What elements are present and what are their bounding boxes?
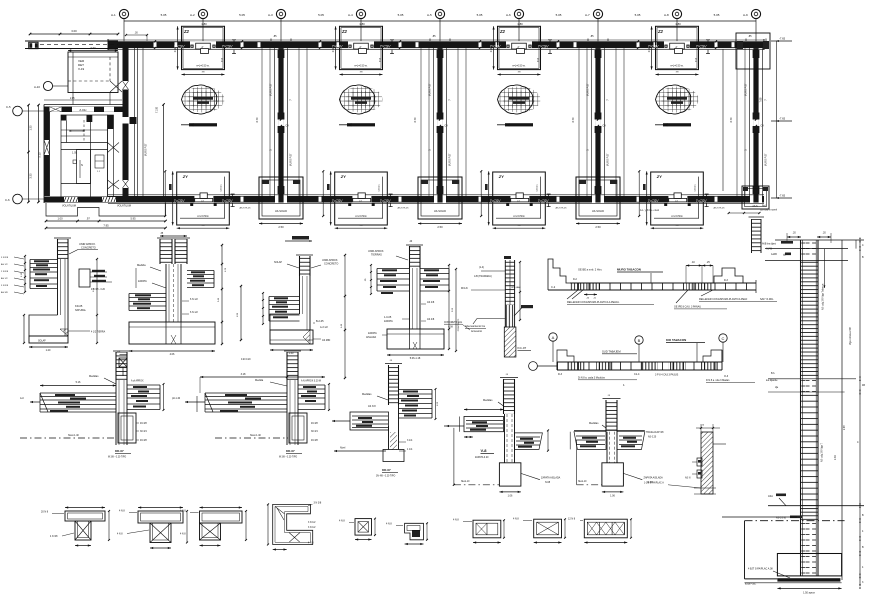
axis dimension texts [161,13,720,26]
svg-text:4 N 8: 4 N 8 [339,520,345,523]
wall section KE-07 [644,424,726,494]
upper room VER DET [68,46,118,93]
svg-text:s=L=0.50m: s=L=0.50m [355,216,367,218]
left plan bottom wall [44,197,166,208]
svg-text:49 3/8: 49 3/8 [140,422,147,425]
svg-text:4 N 8: 4 N 8 [119,510,125,513]
svg-text:7=CSV: 7=CSV [490,199,502,203]
svg-text:les dijande: les dijande [766,379,778,382]
beam elevation with axis circles A B C [529,333,755,387]
svg-text:Accesorio: Accesorio [471,330,483,333]
svg-text:ZAPATA AISLADA: ZAPATA AISLADA [644,477,664,480]
svg-text:1.20: 1.20 [46,349,51,352]
svg-text:CONCRETO: CONCRETO [324,263,338,266]
svg-text:7=CSV: 7=CSV [380,45,392,49]
svg-text:ZAPATA: ZAPATA [138,280,147,283]
svg-text:MURO P.07: MURO P.07 [765,153,768,166]
svg-text:AS-SOLID: AS-SOLID [592,209,604,213]
svg-text:Z-02v: Z-02v [79,108,87,112]
svg-text:Z2: Z2 [499,29,506,34]
svg-text:4 N 8: 4 N 8 [453,519,459,522]
svg-text:ZY: ZY [182,174,188,179]
svg-text:solterra: solterra [378,184,381,192]
svg-text:M=Lift: M=Lift [461,287,468,290]
svg-text:KD-07: KD-07 [286,449,295,453]
wall footing at axis x=281 [259,177,303,229]
bottom wall band [108,195,764,204]
section arrow mark at axis x=203 [181,123,217,126]
svg-text:MURO P.07: MURO P.07 [587,83,590,96]
svg-text:B.b.: B.b. [771,373,775,375]
svg-text:ASIA PLAC: ASIA PLAC [745,583,757,586]
svg-text:CONCRETO CAL: CONCRETO CAL [444,321,463,324]
svg-text:s=L=0.50m: s=L=0.50m [513,216,525,218]
svg-text:2.48: 2.48 [834,455,837,460]
svg-text:AVB les dijesi: AVB les dijesi [762,243,776,246]
svg-text:A-6: A-6 [506,13,511,17]
svg-text:3 N 3/8: 3 N 3/8 [1,257,9,259]
svg-text:ZAPATA: ZAPATA [384,320,393,323]
svg-text:Medida: Medida [137,263,146,267]
svg-text:Z2: Z2 [183,29,190,34]
elevation level mark symbol [117,351,127,376]
footing ZY at axis x=361 [322,170,392,229]
svg-text:AS-SOLID: AS-SOLID [434,209,446,213]
svg-text:3.00: 3.00 [71,29,77,33]
door swing X marks upper [110,81,122,92]
footing Z2 at axis x=361 [333,26,394,75]
footing Z2 at axis x=677 [649,26,710,75]
svg-text:7=CSV: 7=CSV [174,199,186,203]
svg-text:ASA: ASA [768,495,773,498]
svg-text:A-10: A-10 [34,85,40,89]
footing Z2 at axis x=519 [491,26,552,75]
vertical wall at axis x=440 [421,48,466,196]
svg-text:MURO P.07: MURO P.07 [449,153,452,166]
svg-text:s=L=0.50 m.: s=L=0.50 m. [196,64,210,67]
svg-text:1.50 aprox: 1.50 aprox [803,592,816,595]
room right edge line [156,103,165,201]
beam section S9 wide rectangle [568,518,632,544]
svg-text:solterra: solterra [220,184,223,192]
svg-text:A.L. y B.Oa + nivel: A.L. y B.Oa + nivel [640,209,660,212]
svg-text:5.06-1.18: 5.06-1.18 [410,357,421,360]
svg-text:AS-STK.05: AS-STK.05 [240,207,252,210]
svg-text:4 BJT S-PA/PLAC A.08: 4 BJT S-PA/PLAC A.08 [748,568,773,571]
svg-text:5.05: 5.05 [239,13,245,17]
svg-text:30 3/4: 30 3/4 [140,430,147,433]
vertical wall at axis x=598 [579,48,624,196]
svg-text:A-7: A-7 [585,13,590,17]
svg-text:B: B [638,338,641,343]
tall column footing [722,517,842,595]
svg-text:solterra: solterra [694,184,697,192]
svg-text:s=L=0.50 m.: s=L=0.50 m. [670,64,684,67]
svg-text:GE BE a mrb. 2 Him.: GE BE a mrb. 2 Him. [578,268,602,272]
svg-text:4 N 8: 4 N 8 [308,543,314,545]
svg-text:AS-SOLID: AS-SOLID [275,209,287,213]
svg-text:1.80: 1.80 [517,22,523,26]
beam section S7 rectangle [453,519,505,544]
svg-text:AS colg 3/8 Viga Tabacon: AS colg 3/8 Viga Tabacon [822,283,825,310]
leader texts below detail D4 right [444,321,470,330]
svg-text:Z2: Z2 [341,29,348,34]
svg-text:8.70: 8.70 [256,117,259,122]
svg-text:D-3: D-3 [558,373,563,376]
svg-text:MURO P.07: MURO P.07 [745,83,748,96]
svg-text:Medidas: Medidas [362,393,372,396]
svg-text:1.80: 1.80 [359,22,365,26]
beam section S5 square [339,518,376,541]
axis circle 3 [268,9,286,18]
svg-text:-7.65: -7.65 [779,194,786,198]
band joint labels [174,45,708,203]
svg-text:Medidas: Medidas [589,422,599,425]
svg-text:.85: .85 [273,35,277,38]
top band tick marks and small dims [125,32,766,50]
svg-text:5.95: 5.95 [130,217,136,221]
svg-text:D-2: D-2 [573,278,578,281]
svg-text:AISLADA: AISLADA [366,336,377,339]
svg-text:2 N 3/8: 2 N 3/8 [1,271,9,273]
svg-text:7.100: 7.100 [156,106,159,113]
svg-text:MURO P.07: MURO P.07 [145,143,148,156]
small ladder stub below plan right [728,212,764,253]
svg-text:1.06: 1.06 [508,495,513,498]
svg-text:KD-05: KD-05 [75,304,83,308]
svg-text:TRASLACAP 3/8: TRASLACAP 3/8 [646,431,664,434]
svg-text:1.00: 1.00 [57,217,63,221]
beam section S2 T-shape [117,506,188,549]
svg-text:4 N 8: 4 N 8 [117,534,123,536]
svg-text:MURO P.07: MURO P.07 [429,83,432,96]
axis circle 8 [664,9,682,18]
svg-text:RELLENAR CON ESPUMA PLASTICA P: RELLENAR CON ESPUMA PLASTICA PELD [699,298,747,301]
svg-text:AS N 8: AS N 8 [368,405,376,408]
svg-text:1.05: 1.05 [72,152,77,155]
left plan wall face lines right [135,48,148,196]
hatched oval opening at axis x=519 [498,85,541,114]
svg-text:VOLATILUM: VOLATILUM [62,205,76,208]
hatched oval opening at axis x=203 [182,85,225,114]
svg-text:3.35: 3.35 [29,173,33,179]
axis circle 7 [585,9,603,18]
svg-text:7=CSV: 7=CSV [538,45,550,49]
svg-text:ZY: ZY [656,174,662,179]
svg-text:ZAPATA: ZAPATA [368,332,377,335]
svg-text:N: N [81,163,83,167]
svg-text:solterra: solterra [536,184,539,192]
svg-text:5.05: 5.05 [714,13,720,17]
svg-text:D N 8 a. nda 3 Madan: D N 8 a. nda 3 Madan [706,379,730,382]
svg-text:KD-07: KD-07 [115,449,124,453]
svg-text:49 3/8: 49 3/8 [140,439,147,442]
svg-text:4 N 3/8: 4 N 3/8 [50,536,58,538]
svg-text:SOLAP: SOLAP [38,340,46,343]
svg-text:Viga colmna 2.48: Viga colmna 2.48 [850,327,852,345]
hatched oval opening at axis x=677 [656,85,699,114]
svg-text:MURO P.07: MURO P.07 [270,83,273,96]
svg-text:8.70: 8.70 [730,117,733,122]
svg-text:AS 4/8: AS 4/8 [427,318,435,321]
svg-text:1.06: 1.06 [610,495,615,498]
svg-text:GE IPE 8 CAU. 3 PANAU: GE IPE 8 CAU. 3 PANAU [674,306,701,309]
beam section S6 stepped square [386,522,428,545]
beam section S3 L-shape [180,506,247,546]
svg-text:3N 4/8 - 0.20 TIPO: 3N 4/8 - 0.20 TIPO [376,476,395,478]
svg-text:7=CSV: 7=CSV [696,45,708,49]
axis circle 2 [190,9,208,18]
svg-text:3 N 1/2: 3 N 1/2 [308,522,316,524]
svg-text:7=CSV: 7=CSV [490,45,502,49]
svg-text:C-6: C-6 [5,198,10,202]
svg-text:Nivel-10: Nivel-10 [461,481,470,483]
axis circle left mid [34,81,68,90]
svg-text:.20: .20 [792,232,796,235]
section arrow mark at axis x=677 [655,123,691,126]
svg-text:3.60: 3.60 [90,46,96,50]
svg-text:AS-STK.05: AS-STK.05 [714,207,726,210]
room interior partitions [61,115,108,197]
svg-text:MURO TABACON: MURO TABACON [617,268,641,272]
svg-text:V-19: V-19 [78,67,85,71]
beam section S8 rectangle [513,518,566,544]
svg-text:AS 1/2: AS 1/2 [1,277,8,280]
svg-text:AS-STK.05: AS-STK.05 [398,207,410,210]
right elevation flags [640,37,792,213]
svg-text:49 3/8: 49 3/8 [311,439,318,442]
svg-text:6 N 1/2: 6 N 1/2 [190,298,198,301]
svg-text:Adecuamiento Ca: Adecuamiento Ca [465,325,485,328]
svg-text:AS 1/2: AS 1/2 [1,263,8,266]
beam-wall detail R2-1 [20,351,164,459]
svg-text:Rel.: Rel. [762,206,766,208]
svg-text:AS-STK.05: AS-STK.05 [556,207,568,210]
section arrow mark at axis x=361 [339,123,375,126]
left plan bottom profile [46,203,166,216]
svg-text:SUD TABAJEM: SUD TABAJEM [602,350,621,354]
footing Z2 at axis x=203 [175,26,236,75]
svg-text:Di N 8 a. cada 3 Modulos: Di N 8 a. cada 3 Modulos [578,377,606,380]
svg-text:0.20 0.20: 0.20 0.20 [241,359,251,361]
svg-text:AVAM: AVAM [766,248,772,251]
svg-text:5.05: 5.05 [635,13,641,17]
svg-text:5.05: 5.05 [398,13,404,17]
left margin axis circle upper [6,105,45,116]
main room top wall [44,105,123,113]
svg-text:A B (TRAMADA): A B (TRAMADA) [474,275,492,278]
svg-text:5.05: 5.05 [556,13,562,17]
svg-text:-7.65: -7.65 [779,37,786,41]
svg-text:AS-S: AS-S [752,205,758,208]
svg-text:3 N 3/8: 3 N 3/8 [1,285,9,287]
svg-text:4 N 8: 4 N 8 [513,518,519,521]
svg-text:AS colg 3/8 Viga T.: AS colg 3/8 Viga T. [821,442,824,462]
left margin axis circle lower [5,194,45,204]
svg-text:4B: 4B [862,384,865,387]
svg-text:7.68: 7.68 [760,97,763,102]
left plan entry wall [25,41,118,49]
svg-text:A of APROX: A of APROX [131,380,144,383]
svg-text:7=CSV: 7=CSV [538,199,550,203]
svg-text:s=L=0.50 m.: s=L=0.50 m. [354,64,368,67]
svg-text:4 N 8: 4 N 8 [180,534,186,536]
svg-text:5.16: 5.16 [76,381,81,384]
svg-text:ZY: ZY [498,174,504,179]
bay interior dimension lines [256,117,733,122]
svg-text:3.18: 3.18 [241,373,246,376]
svg-text:1.80: 1.80 [675,22,681,26]
left plan top dimension line [29,29,120,35]
beam section S4 C-shape [267,502,322,551]
svg-text:Nivel: Nivel [340,447,346,450]
svg-text:MURO P.07: MURO P.07 [290,153,293,166]
svg-text:.85: .85 [590,35,594,38]
svg-text:M 3/8 - 0.20 TIPO: M 3/8 - 0.20 TIPO [279,457,297,459]
axis circle 5 [427,9,445,18]
svg-text:8.70: 8.70 [414,117,417,122]
vertical wall at axis x=281 [262,48,307,196]
svg-text:A-0: A-0 [20,397,24,400]
svg-text:A-4: A-4 [348,13,353,17]
svg-text:VOLATILUM: VOLATILUM [117,205,131,208]
svg-text:Z2: Z2 [657,29,664,34]
svg-text:7=CSV: 7=CSV [222,45,234,49]
svg-text:5.05: 5.05 [318,13,324,17]
wall footing at axis x=440 [418,177,462,229]
svg-text:M 3/8 - 0.20 TIPO: M 3/8 - 0.20 TIPO [108,457,126,459]
svg-text:N.08: N.08 [545,481,551,484]
beam-wall detail R2-3 [332,360,439,478]
svg-text:KD-07: KD-07 [382,468,391,472]
beam section S1 T-shape [41,506,110,546]
svg-text:2.50: 2.50 [595,225,601,229]
svg-text:A-8: A-8 [664,13,669,17]
svg-text:AS 3/8: AS 3/8 [1,291,8,294]
top wall band [108,39,764,50]
svg-text:4.06: 4.06 [170,353,175,356]
svg-text:ZY: ZY [340,174,346,179]
main room left wall [44,105,50,204]
svg-text:ZAPATA 0.20: ZAPATA 0.20 [475,456,489,459]
svg-text:4 1/2 TIERRA: 4 1/2 TIERRA [91,331,106,334]
svg-text:UNIR APROX.: UNIR APROX. [79,242,96,246]
svg-text:2.50: 2.50 [278,225,284,229]
tall rebar column schedule [745,232,866,589]
vertical wall at axis x=756 [737,48,768,196]
svg-text:s=L=0.50m: s=L=0.50m [197,216,209,218]
svg-text:.97: .97 [86,217,90,221]
svg-text:3 1/4: 3 1/4 [407,439,413,442]
svg-text:A-1: A-1 [111,13,116,17]
svg-text:2.05: 2.05 [70,98,75,100]
svg-text:5.05: 5.05 [161,13,167,17]
svg-text:C: C [722,336,725,341]
footing section detail D1 [1,238,112,352]
svg-text:7=CSV: 7=CSV [174,45,186,49]
plan right boundary [723,33,770,191]
svg-text:C1-4: C1-4 [634,373,640,376]
svg-text:4 N 8: 4 N 8 [386,523,392,526]
wall section KC-07 [461,256,533,357]
svg-text:5.05: 5.05 [477,13,483,17]
svg-text:AS 0.20: AS 0.20 [648,436,657,439]
beam-wall detail R2-2 [172,351,330,459]
svg-text:NATURAL: NATURAL [75,309,87,312]
svg-text:1.35: 1.35 [29,125,33,131]
svg-text:1 1/4: 1 1/4 [407,448,413,451]
svg-text:Medida: Medida [255,379,264,382]
svg-text:A-3: A-3 [268,13,273,17]
svg-text:7=CSV: 7=CSV [332,199,344,203]
svg-text:8.70: 8.70 [572,117,575,122]
svg-text:ZAPATA AISLADA: ZAPATA AISLADA [541,477,561,480]
axis circle 1 [111,9,129,18]
svg-text:A-9: A-9 [743,13,748,17]
footing section detail D2 [129,233,227,356]
svg-text:7=CSV: 7=CSV [380,199,392,203]
top axis grid line [124,19,756,41]
footing ZY at axis x=519 [480,170,550,229]
room interior extra lines [44,92,122,173]
svg-text:p0-1.40: p0-1.40 [172,397,181,400]
svg-text:A N APROX 0.20 M: A N APROX 0.20 M [301,380,321,383]
axis circle 6 [506,9,524,18]
wall footing at axis x=756 (small) [742,186,769,209]
footing section detail D4 [365,241,460,360]
svg-text:A-2: A-2 [190,13,195,17]
beam-wall detail R2-5 [570,395,664,498]
svg-text:B-2-05: B-2-05 [316,320,324,323]
svg-text:SAF *A.0DL: SAF *A.0DL [760,298,774,301]
svg-text:SOLAP: SOLAP [274,261,282,264]
svg-text:C-2: C-2 [551,285,556,289]
svg-text:2.50: 2.50 [437,225,443,229]
footing section detail D3 [237,236,346,379]
svg-text:2.48: 2.48 [844,425,846,430]
svg-text:Medidas: Medidas [89,375,99,378]
svg-text:3 N 3/8: 3 N 3/8 [314,502,322,505]
svg-text:.20: .20 [822,232,826,235]
svg-text:1-0-05: 1-0-05 [384,316,392,319]
axis circle 4 [348,9,366,18]
svg-text:V-8: V-8 [481,448,488,453]
svg-text:Nivel-10: Nivel-10 [578,481,587,483]
svg-text:s=L=0.50 m.: s=L=0.50 m. [512,64,526,67]
svg-text:1-3/8 S-PA/PLAC A: 1-3/8 S-PA/PLAC A [644,482,664,485]
svg-text:KC-07: KC-07 [518,346,527,350]
svg-text:3 N 1/2: 3 N 1/2 [308,527,316,529]
svg-text:AS N: AS N [685,477,691,480]
svg-text:KIO TABACON: KIO TABACON [666,338,686,342]
hatched oval opening at axis x=361 [340,85,383,114]
left plan bottom dimension lines [45,217,167,230]
svg-text:.85: .85 [432,35,436,38]
left vertical dimension lines [27,104,41,204]
svg-text:12 N 8: 12 N 8 [568,518,576,521]
beam elevation MURO TABACON upper [548,259,777,309]
svg-text:7=CSV: 7=CSV [332,45,344,49]
svg-text:D-3: D-3 [724,279,729,282]
texts below bottom band [240,207,726,210]
svg-text:CONCRETO: CONCRETO [81,246,96,250]
svg-text:O-3: O-3 [724,375,729,378]
svg-text:-7.65: -7.65 [779,117,786,121]
footing ZY at axis x=677 [638,170,708,229]
svg-text:TIERRAS: TIERRAS [371,254,382,257]
svg-text:AS 4/8: AS 4/8 [427,301,435,304]
svg-text:7=CSV: 7=CSV [222,199,234,203]
